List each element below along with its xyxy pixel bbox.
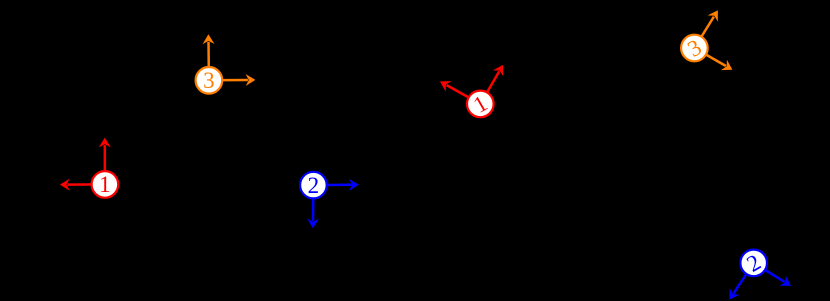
velocity arrow at point 1 (left diagram), left: [60, 179, 105, 191]
arrow at point 3 (right diagram), 57 deg: [694, 10, 718, 48]
svg-text:3: 3: [203, 68, 215, 93]
arrow at point 3 (right diagram), -30 deg: [694, 48, 732, 70]
point 1 (right diagram): [467, 90, 494, 117]
point 3 (right diagram): [681, 34, 708, 61]
velocity arrow at point 1 (left diagram), up: [99, 138, 111, 185]
point 2 (left diagram): [300, 172, 327, 199]
arrow at point 3 (left diagram), up: [203, 34, 215, 80]
arrow at point 2 (right diagram), -120 deg: [729, 263, 753, 300]
point 1 (left diagram): [92, 171, 119, 198]
arrow at point 2 (left diagram), right: [313, 179, 358, 191]
arrow at point 2 (right diagram), -30 deg: [754, 263, 791, 286]
arrow at point 1 (right diagram), 150 deg: [440, 81, 480, 104]
arrow at point 3 (left diagram), right: [209, 74, 256, 86]
point 3 (left diagram): [196, 67, 223, 94]
arrow at point 2 (left diagram), down: [307, 185, 319, 228]
svg-text:1: 1: [99, 172, 111, 197]
svg-text:2: 2: [308, 173, 320, 198]
arrow at point 1 (right diagram), 60 deg: [480, 65, 503, 104]
point 2 (right diagram): [740, 249, 767, 276]
